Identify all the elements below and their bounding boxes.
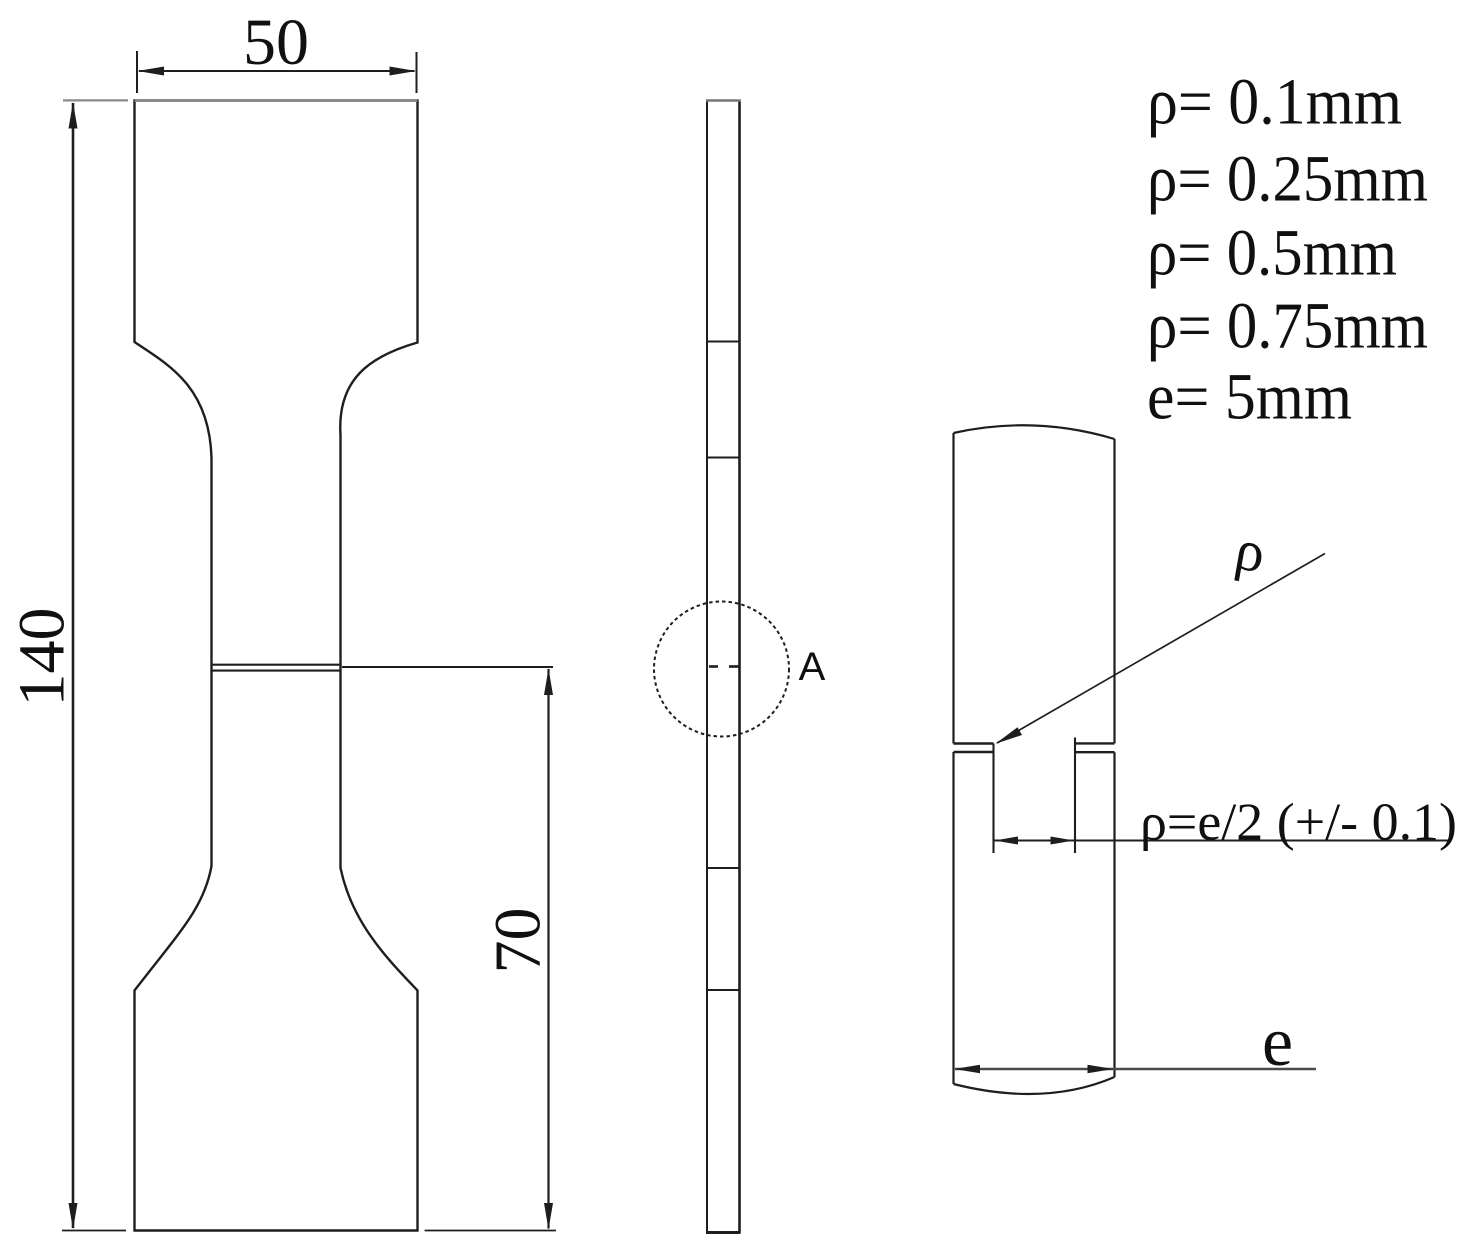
detail view right edge upper [1113,439,1115,743]
left slot bottom line [954,751,994,753]
side view division line 1 [707,341,740,343]
dim 50 line [139,70,415,72]
dim 140 witness line bottom [62,1230,126,1232]
detail view top break arc [954,425,1115,439]
leader arrowhead [996,727,1023,744]
side view division line 2 [707,457,740,459]
dim e arrow left [954,1065,980,1073]
dim 50 arrow left [138,67,165,76]
leader line rho [997,554,1325,744]
dim e line [955,1068,1316,1070]
dim 70 arrow bottom [544,1203,553,1230]
svg-text:ρ= 0.1mm: ρ= 0.1mm [1147,66,1402,139]
dim 70 line [547,669,549,1229]
svg-text:ρ= 0.25mm: ρ= 0.25mm [1147,143,1428,216]
right slot wall / extension line [1074,738,1076,854]
svg-text:70: 70 [482,908,555,974]
side view left edge [706,100,708,1234]
dim rho=e/2 arrow right [1051,837,1075,845]
right slot bottom line [1075,751,1115,753]
notch line lower (front view) [212,670,341,672]
notch line upper (front view) [212,664,341,666]
left slot wall / extension line [992,744,994,854]
front view top edge gray overdraw [135,99,418,102]
svg-text:ρ= 0.5mm: ρ= 0.5mm [1147,217,1397,290]
side view division line 3 [707,867,740,869]
detail view bottom break arc [954,1077,1115,1094]
svg-text:e: e [1262,1004,1293,1081]
svg-text:ρ= 0.75mm: ρ= 0.75mm [1147,290,1428,363]
right slot top line [1075,742,1115,744]
dim e arrow right [1088,1065,1114,1073]
detail view left edge lower [952,752,954,1084]
dim 140 arrow bottom [69,1203,78,1230]
detail view left edge upper [952,433,954,744]
dim 70 witness line top [342,666,553,668]
svg-text:e= 5mm: e= 5mm [1147,361,1352,434]
svg-text:ρ=e/2 (+/- 0.1): ρ=e/2 (+/- 0.1) [1140,794,1457,852]
svg-text:140: 140 [6,608,79,707]
detail circle A (dashed) [654,602,789,737]
side view top edge [706,99,741,101]
dim 70 witness line bottom [425,1230,556,1232]
side view right edge [738,100,741,1234]
dim 140 witness line top [63,99,128,101]
side view bottom edge [706,1231,741,1234]
dim 50 witness line left [136,51,138,93]
dim 140 line [72,103,75,1228]
dim 140 arrow top [69,102,78,129]
side view notch center dashes [709,665,718,668]
dim 50 witness line right [416,52,418,93]
svg-text:A: A [799,645,826,689]
svg-text:50: 50 [243,6,309,79]
dim rho=e/2 line [994,840,1449,842]
side view division line 4 [707,989,740,991]
left slot top line [954,742,994,744]
dim 70 arrow top [544,669,553,696]
front view specimen outline [135,101,418,1231]
detail view right edge lower [1113,752,1115,1077]
dim 50 arrow right [390,67,417,76]
dim rho=e/2 arrow left [995,837,1019,845]
